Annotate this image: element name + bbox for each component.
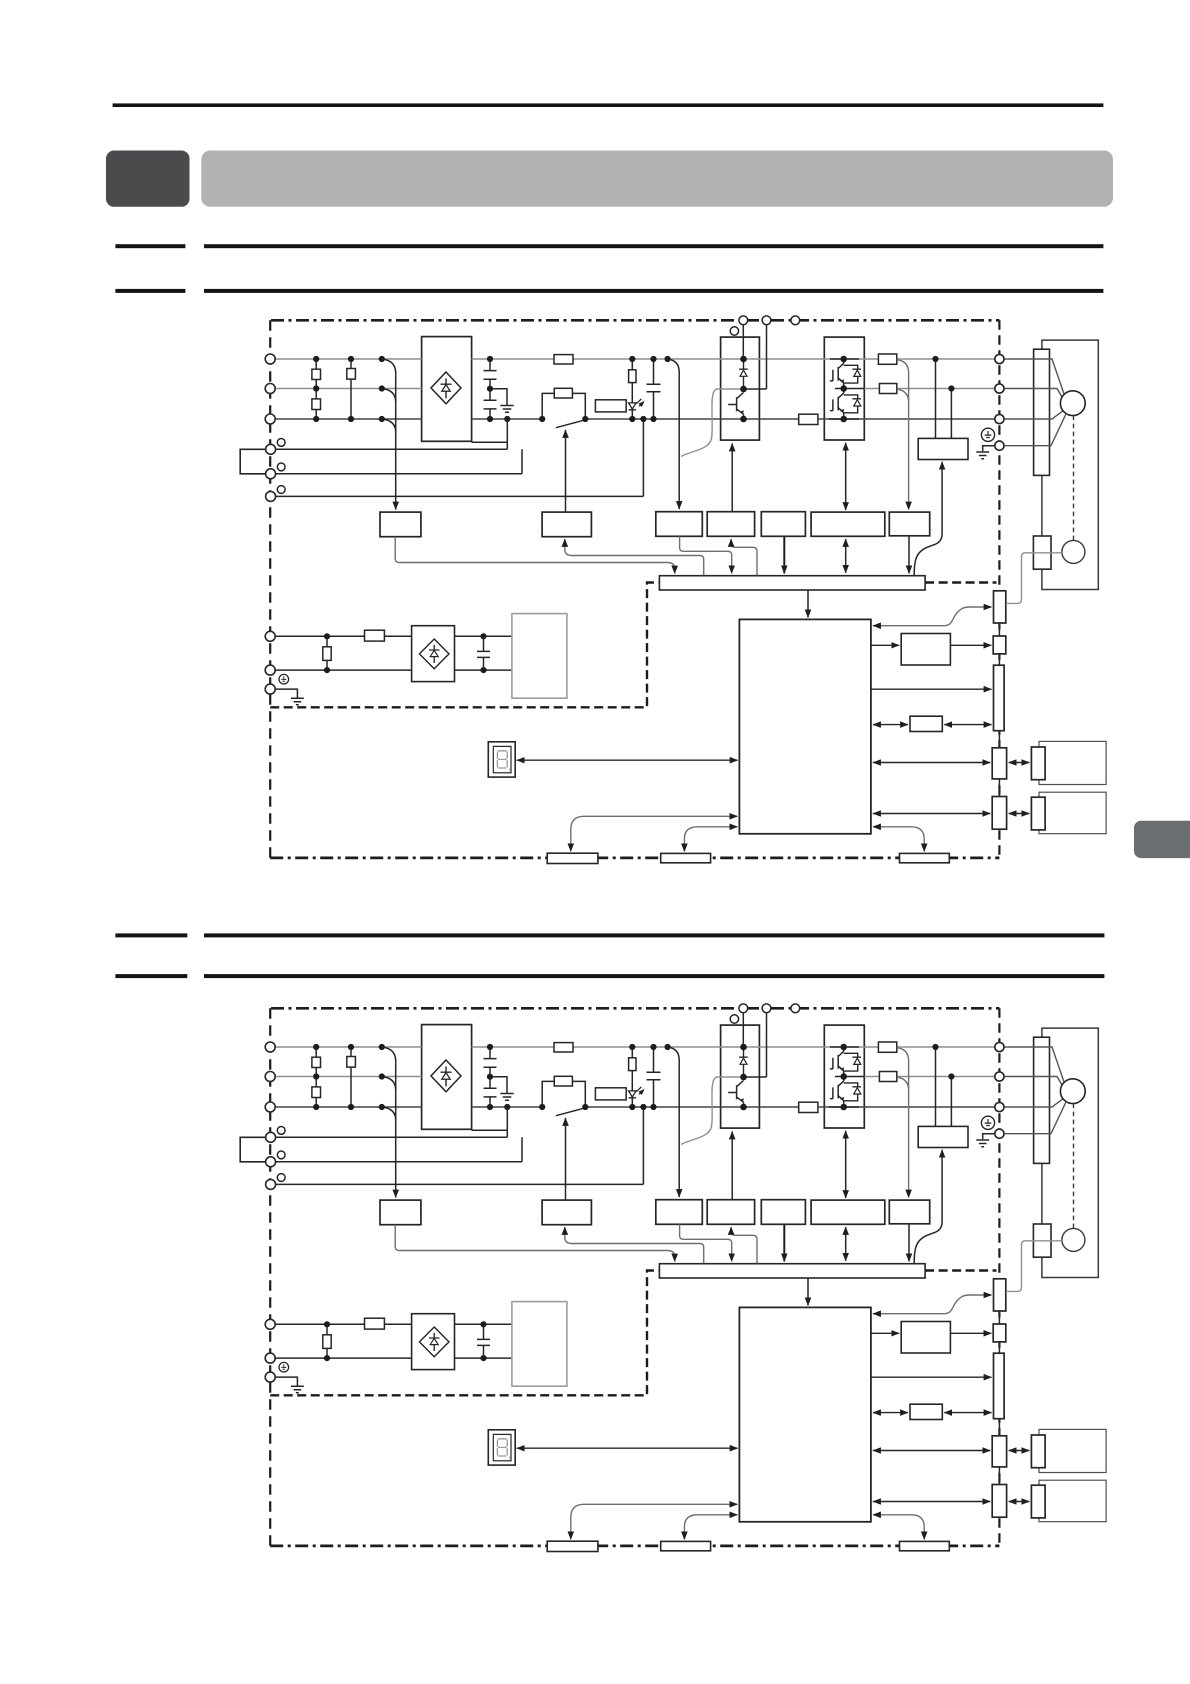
section rule 4: [115, 974, 187, 978]
block diagram 2: [240, 1004, 1106, 1552]
section rule 1: [115, 244, 185, 248]
chapter title bar (gray): [201, 151, 1113, 207]
section rule 2: [115, 289, 185, 293]
side index tab (gray): [1134, 821, 1190, 858]
page top rule: [113, 103, 1104, 107]
section rule 3: [115, 933, 187, 937]
block diagram 1: [240, 316, 1106, 864]
chapter number box (dark): [106, 151, 190, 207]
